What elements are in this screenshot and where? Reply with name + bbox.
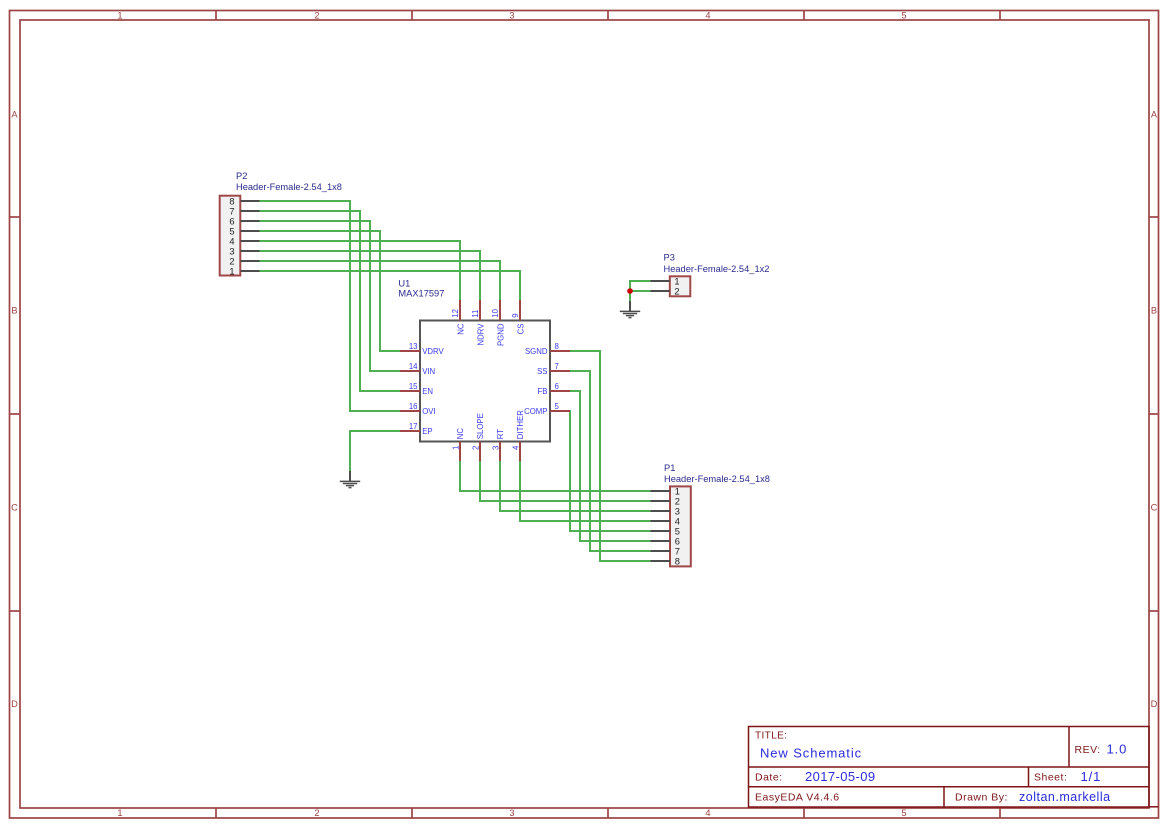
svg-text:4: 4 — [705, 808, 710, 818]
svg-text:MAX17597: MAX17597 — [398, 289, 444, 299]
svg-text:4: 4 — [675, 516, 680, 526]
U1 pin 16 OVI — [400, 402, 436, 416]
P2 pin 3 stub — [241, 250, 260, 252]
svg-text:NDRV: NDRV — [476, 323, 485, 346]
svg-text:1: 1 — [451, 446, 460, 450]
svg-text:3: 3 — [675, 506, 680, 516]
P2 pin 8 stub — [241, 200, 260, 202]
svg-text:RT: RT — [496, 429, 505, 439]
U1 pin 6 FB — [538, 382, 570, 396]
U1 pin 15 EN — [400, 382, 433, 396]
wire P2.7 to U1.EN — [259, 211, 401, 391]
wire U1.EP to ground — [350, 431, 401, 471]
wire P3.2 to junction — [630, 290, 651, 292]
U1 pin 11 NDRV — [471, 300, 485, 345]
svg-text:B: B — [1151, 306, 1157, 316]
P1 pin 1 stub — [651, 490, 671, 492]
svg-text:6: 6 — [675, 536, 680, 546]
U1 pin 9 CS — [511, 300, 525, 334]
svg-text:Drawn By:: Drawn By: — [955, 792, 1008, 804]
svg-text:8: 8 — [229, 196, 234, 206]
svg-text:NC: NC — [456, 323, 465, 335]
svg-text:10: 10 — [491, 308, 500, 317]
svg-text:1: 1 — [674, 276, 679, 286]
U1 pin 13 VDRV — [400, 342, 445, 356]
svg-text:16: 16 — [409, 402, 418, 411]
P1 pin 3 stub — [651, 510, 671, 512]
P2 pin 4 stub — [241, 240, 260, 242]
wire U1.FB to P1.6 — [570, 391, 651, 541]
P1 pin 8 stub — [651, 560, 671, 562]
svg-text:1/1: 1/1 — [1081, 769, 1102, 784]
svg-text:CS: CS — [516, 324, 525, 335]
op-amp U1 body MAX17597 — [420, 321, 550, 442]
U1 pin 5 COMP — [524, 402, 570, 416]
ground below P3 — [620, 301, 640, 318]
U1 pin 17 EP — [400, 422, 433, 436]
wire P2.3 to U1.NDRV — [259, 251, 480, 301]
svg-text:SLOPE: SLOPE — [476, 413, 485, 439]
P1 pin 7 stub — [651, 550, 671, 552]
U1 pin 12 NC — [451, 300, 465, 335]
svg-text:Header-Female-2.54_1x8: Header-Female-2.54_1x8 — [236, 182, 342, 192]
svg-text:SGND: SGND — [525, 347, 548, 356]
svg-text:EasyEDA V4.4.6: EasyEDA V4.4.6 — [755, 792, 840, 804]
svg-text:4: 4 — [705, 11, 710, 21]
U1 pin 4 DITHER — [511, 410, 525, 461]
P1 pin 5 stub — [651, 530, 671, 532]
svg-text:1: 1 — [117, 808, 122, 818]
svg-text:Header-Female-2.54_1x8: Header-Female-2.54_1x8 — [664, 474, 770, 484]
svg-text:P1: P1 — [664, 463, 675, 473]
svg-text:NC: NC — [456, 428, 465, 440]
P3 pin 2 stub — [651, 290, 670, 292]
svg-text:DITHER: DITHER — [516, 410, 525, 439]
svg-text:P3: P3 — [664, 253, 675, 263]
svg-text:Header-Female-2.54_1x2: Header-Female-2.54_1x2 — [664, 264, 770, 274]
svg-text:5: 5 — [901, 808, 906, 818]
svg-text:11: 11 — [471, 310, 480, 318]
svg-text:4: 4 — [229, 236, 234, 246]
svg-text:Date:: Date: — [755, 772, 783, 784]
U1 pin 3 RT — [491, 429, 505, 461]
wire U1.SGND to P1.8 — [570, 351, 651, 561]
wire P3.1 to ground net — [630, 281, 651, 301]
svg-text:1.0: 1.0 — [1107, 742, 1128, 757]
svg-text:7: 7 — [675, 546, 680, 556]
svg-text:5: 5 — [675, 526, 680, 536]
P1 pin 6 stub — [651, 540, 671, 542]
wire P2.8 to U1.OVI — [259, 201, 401, 411]
svg-text:zoltan.markella: zoltan.markella — [1019, 790, 1111, 804]
svg-text:2: 2 — [229, 256, 234, 266]
svg-text:4: 4 — [511, 445, 520, 450]
wire U1.SLOPE to P1.2 — [480, 461, 651, 501]
svg-text:EP: EP — [422, 427, 432, 436]
svg-text:2: 2 — [314, 11, 319, 21]
wire U1.NC1 to P1.1 — [460, 461, 651, 491]
svg-text:P2: P2 — [236, 171, 247, 181]
svg-text:2: 2 — [471, 446, 480, 450]
svg-text:TITLE:: TITLE: — [755, 731, 787, 742]
svg-text:2: 2 — [674, 286, 679, 296]
title block — [749, 727, 1159, 808]
P1 pin 2 stub — [651, 500, 671, 502]
svg-text:7: 7 — [555, 362, 559, 371]
svg-text:D: D — [1151, 699, 1158, 709]
svg-text:EN: EN — [422, 387, 433, 396]
P2 pin 1 stub — [241, 270, 260, 272]
svg-text:6: 6 — [229, 216, 234, 226]
connector P1 body — [670, 486, 691, 566]
svg-text:15: 15 — [409, 382, 418, 391]
svg-text:3: 3 — [509, 808, 514, 818]
wire P2.4 to U1.NC12 — [259, 241, 460, 301]
U1 pin 1 NC — [451, 428, 465, 461]
wire P2.1 to U1.CS — [259, 271, 520, 301]
svg-text:3: 3 — [491, 446, 500, 450]
svg-text:SS: SS — [537, 367, 547, 376]
svg-text:13: 13 — [409, 342, 418, 351]
svg-text:COMP: COMP — [524, 407, 547, 416]
wire U1.SS to P1.7 — [570, 371, 651, 551]
svg-text:2: 2 — [314, 808, 319, 818]
P2 pin 7 stub — [241, 210, 260, 212]
U1 pin 14 VIN — [400, 362, 435, 376]
svg-text:6: 6 — [555, 382, 559, 391]
svg-text:New Schematic: New Schematic — [760, 745, 862, 760]
svg-text:9: 9 — [511, 313, 520, 317]
connector P2 body — [220, 196, 241, 276]
svg-text:5: 5 — [555, 402, 560, 411]
P1 pin 4 stub — [651, 520, 671, 522]
svg-text:U1: U1 — [398, 279, 410, 289]
svg-text:B: B — [11, 306, 17, 316]
svg-text:2: 2 — [675, 496, 680, 506]
svg-text:5: 5 — [901, 11, 906, 21]
U1 pin 7 SS — [537, 362, 570, 376]
svg-text:1: 1 — [675, 486, 680, 496]
P3 pin 1 stub — [651, 280, 670, 282]
svg-text:C: C — [11, 503, 18, 513]
svg-text:14: 14 — [409, 362, 418, 371]
svg-text:A: A — [1151, 110, 1158, 120]
svg-text:12: 12 — [451, 309, 460, 318]
wire U1.RT to P1.3 — [500, 461, 651, 511]
svg-text:Sheet:: Sheet: — [1034, 772, 1067, 784]
svg-text:3: 3 — [509, 11, 514, 21]
P2 pin 6 stub — [241, 220, 260, 222]
svg-text:OVI: OVI — [422, 407, 435, 416]
svg-text:PGND: PGND — [496, 323, 505, 346]
U1 pin 2 SLOPE — [471, 413, 485, 461]
svg-text:3: 3 — [229, 246, 234, 256]
U1 pin 10 PGND — [491, 300, 505, 346]
svg-text:VIN: VIN — [422, 367, 435, 376]
svg-text:FB: FB — [538, 387, 548, 396]
svg-text:8: 8 — [555, 342, 559, 351]
P2 pin 2 stub — [241, 260, 260, 262]
wire U1.DITHER to P1.4 — [520, 461, 651, 521]
wire P2.5 to U1.VDRV — [259, 231, 401, 351]
svg-text:5: 5 — [229, 226, 234, 236]
P2 pin 5 stub — [241, 230, 260, 232]
junction on ground net at P3 — [627, 288, 633, 294]
ground below U1.EP — [340, 471, 360, 488]
U1 pin 8 SGND — [525, 342, 570, 356]
wire P2.6 to U1.VIN — [259, 221, 401, 371]
svg-text:C: C — [1151, 503, 1158, 513]
svg-text:1: 1 — [229, 266, 234, 276]
wire U1.COMP to P1.5 — [570, 411, 651, 531]
wire P2.2 to U1.PGND — [259, 261, 500, 301]
svg-text:D: D — [11, 699, 18, 709]
svg-text:2017-05-09: 2017-05-09 — [805, 769, 876, 784]
svg-text:REV:: REV: — [1075, 744, 1101, 756]
svg-text:17: 17 — [409, 422, 418, 431]
svg-text:7: 7 — [229, 206, 234, 216]
svg-text:A: A — [11, 110, 18, 120]
connector P3 body — [670, 276, 691, 296]
svg-text:VDRV: VDRV — [422, 347, 444, 356]
svg-text:1: 1 — [117, 11, 122, 21]
svg-text:8: 8 — [675, 556, 680, 566]
